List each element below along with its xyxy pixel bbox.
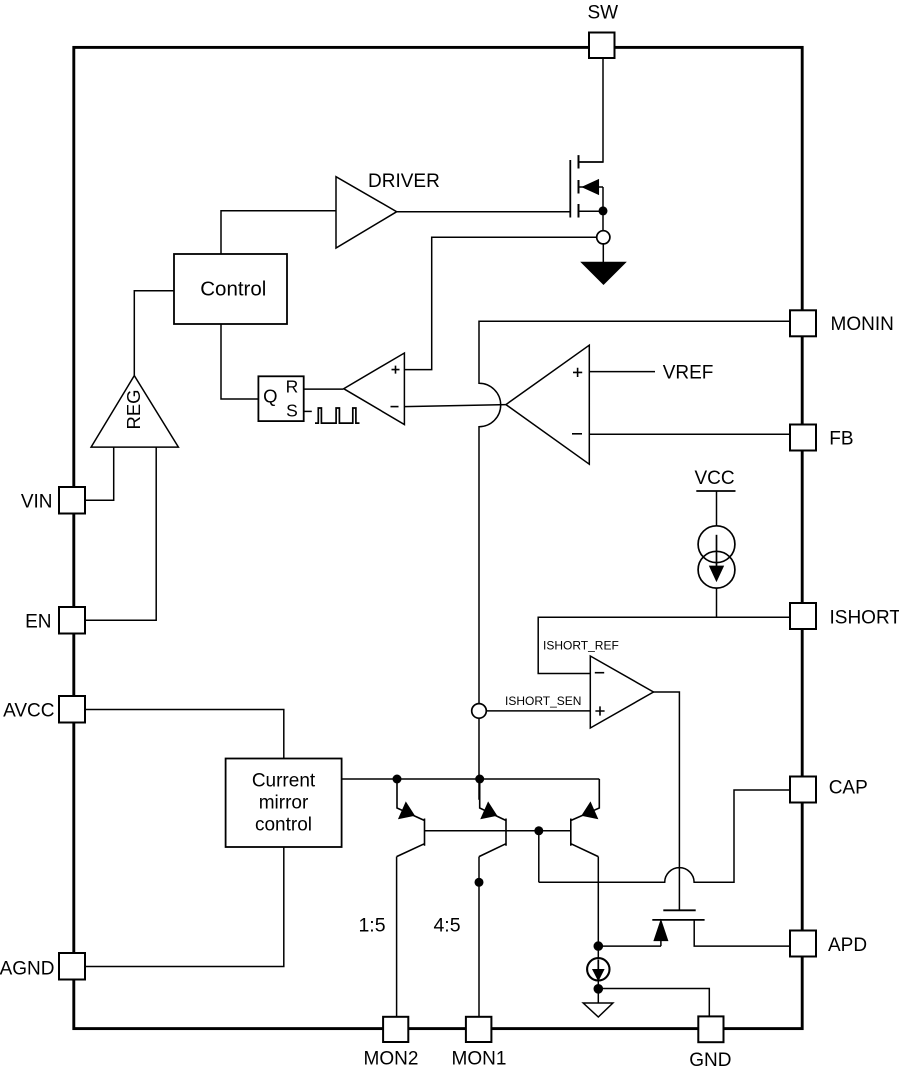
junction dot mirror rail T2 xyxy=(475,775,484,784)
svg-text:REG: REG xyxy=(123,389,144,429)
wire ISHORT comparator output to APD gate xyxy=(654,692,680,910)
current source I2 xyxy=(587,958,609,980)
minus sign error amp xyxy=(572,433,582,435)
svg-text:EN: EN xyxy=(25,612,51,633)
wire MONIN to current mirror (with hop over amp output) xyxy=(479,321,790,799)
junction dot base line xyxy=(534,826,543,835)
wire error amp output to PWM comparator - input xyxy=(404,405,506,407)
wire REG output to Control xyxy=(134,291,174,376)
regulator REG triangle xyxy=(91,376,178,448)
current source I1 arrow xyxy=(716,535,718,568)
wire AVCC to current mirror control xyxy=(85,710,284,759)
svg-text:VREF: VREF xyxy=(663,363,714,384)
clock waveform at S input xyxy=(315,408,360,423)
svg-text:APD: APD xyxy=(828,935,867,956)
wire T2 collector to MON1 xyxy=(478,857,480,1017)
wire AGND to current mirror control xyxy=(85,847,284,967)
transistor T2 emitter arrow xyxy=(482,803,497,818)
wire APD drain to APD pin xyxy=(694,920,790,946)
svg-text:S: S xyxy=(286,401,298,421)
transistor T2 (4:5 mirror) xyxy=(479,779,506,857)
power ground filled triangle xyxy=(582,263,625,285)
pin CAP xyxy=(790,777,816,803)
wire ground node to GND pin xyxy=(598,989,709,1017)
minus sign PWM comparator xyxy=(391,406,399,408)
wire base to CAP (with hop over gate line) xyxy=(539,790,790,882)
VCC rail symbol xyxy=(696,490,735,492)
transistor T1 (1:5 mirror) xyxy=(397,779,425,857)
transistor Q1 source connection xyxy=(579,210,604,212)
svg-text:AGND: AGND xyxy=(0,959,55,980)
pin MON1 xyxy=(466,1017,492,1042)
node open circle (current sense node) xyxy=(597,231,610,244)
minus sign ISHORT comparator xyxy=(595,672,604,674)
wire ISHORT to comparator - input (ISHORT_REF) xyxy=(538,617,790,673)
junction dot ground node xyxy=(594,984,604,994)
IC boundary box xyxy=(74,47,802,1028)
wire VIN to REG xyxy=(85,447,114,500)
current source I1 circles xyxy=(698,526,735,563)
transistor T3 (output mirror) xyxy=(571,779,600,857)
svg-text:mirror: mirror xyxy=(259,793,309,814)
svg-text:Current: Current xyxy=(252,771,316,792)
pin APD xyxy=(790,931,816,957)
svg-text:Control: Control xyxy=(200,278,266,301)
plus sign PWM comparator xyxy=(392,366,400,374)
wire base node down xyxy=(538,831,540,883)
wire node to small current source xyxy=(597,946,599,958)
transistor M2 source arrow xyxy=(654,921,667,940)
svg-text:MONIN: MONIN xyxy=(831,314,894,335)
junction dot mirror rail T1 xyxy=(393,775,402,784)
wire bottom node to APD source xyxy=(598,945,661,947)
plus sign ISHORT comparator xyxy=(595,706,604,715)
svg-text:ISHORT: ISHORT xyxy=(830,608,899,629)
wire small current source to ground node xyxy=(597,981,599,1004)
pin GND xyxy=(698,1016,723,1042)
pin FB xyxy=(790,425,816,451)
transistor Q1 channel dashes xyxy=(578,155,580,217)
svg-text:ISHORT_SEN: ISHORT_SEN xyxy=(505,694,581,708)
wire node to power ground xyxy=(602,244,604,263)
pin MON2 xyxy=(383,1017,408,1042)
analog ground open triangle xyxy=(583,1003,613,1017)
svg-text:control: control xyxy=(255,815,312,836)
wire mirror base line xyxy=(425,830,571,832)
wire T1 collector to MON2 xyxy=(396,857,398,1017)
svg-text:AVCC: AVCC xyxy=(3,701,54,722)
svg-text:FB: FB xyxy=(829,429,853,450)
wire Control to DRIVER input xyxy=(221,211,336,254)
wire S input stub xyxy=(304,410,312,412)
wire error amp - input to FB xyxy=(589,433,790,435)
svg-text:VIN: VIN xyxy=(21,492,53,513)
wire VCC to current source xyxy=(716,491,718,526)
junction dot MON1 line xyxy=(475,878,484,887)
svg-text:1:5: 1:5 xyxy=(358,915,385,937)
block Control xyxy=(174,254,287,324)
svg-text:4:5: 4:5 xyxy=(433,915,460,937)
transistor Q1 body connection with arrow xyxy=(579,187,604,211)
buffer DRIVER xyxy=(336,177,397,248)
pin AVCC xyxy=(59,696,85,723)
wire ISHORT_SEN to comparator + input xyxy=(487,710,591,712)
pin ISHORT xyxy=(790,603,816,629)
svg-text:ISHORT_REF: ISHORT_REF xyxy=(543,639,619,653)
wire EN to REG xyxy=(85,447,156,620)
wire mirror supply rail xyxy=(342,778,600,780)
svg-text:R: R xyxy=(286,377,299,397)
transistor Q1 gate bar xyxy=(569,160,571,218)
comparator PWM triangle xyxy=(344,353,405,425)
svg-text:SW: SW xyxy=(587,3,618,24)
transistor M2 channel bar xyxy=(652,919,704,921)
pin EN xyxy=(59,607,85,634)
node ISHORT_SEN open circle xyxy=(472,704,487,719)
block Current mirror control xyxy=(226,759,342,848)
op-amp ISHORT comparator xyxy=(590,656,653,728)
pin SW xyxy=(589,33,615,59)
svg-text:VCC: VCC xyxy=(695,468,735,489)
svg-text:GND: GND xyxy=(689,1050,731,1071)
wire source to node xyxy=(602,211,604,231)
junction dot APD source node xyxy=(594,941,604,951)
transistor T1 emitter arrow xyxy=(399,803,414,818)
pin MONIN xyxy=(790,310,816,336)
wire SW to MOSFET drain xyxy=(579,58,604,162)
svg-text:MON1: MON1 xyxy=(452,1049,507,1070)
wire current source to ISHORT net xyxy=(716,588,718,617)
svg-text:CAP: CAP xyxy=(829,778,868,799)
wire T3 collector to bottom node xyxy=(597,857,599,947)
wire Control to flip-flop xyxy=(221,324,258,399)
transistor M2 APD switch top plate xyxy=(663,909,695,911)
transistor T3 emitter arrow xyxy=(583,803,598,818)
pin VIN xyxy=(59,487,85,514)
wire flip-flop R to PWM comparator output xyxy=(304,388,344,390)
op-amp error amplifier xyxy=(506,345,589,464)
wire PWM comparator + input to source node xyxy=(404,237,596,369)
transistor Q1 drain connection xyxy=(579,161,604,163)
svg-text:MON2: MON2 xyxy=(364,1049,419,1070)
svg-text:DRIVER: DRIVER xyxy=(368,171,440,192)
wire VREF xyxy=(589,371,655,373)
wire DRIVER output to gate xyxy=(397,211,571,213)
latch QRS box xyxy=(258,376,303,421)
junction dot Q1 source xyxy=(599,206,608,215)
plus sign error amp xyxy=(573,368,582,377)
svg-text:Q: Q xyxy=(263,386,277,407)
pin AGND xyxy=(59,953,85,980)
